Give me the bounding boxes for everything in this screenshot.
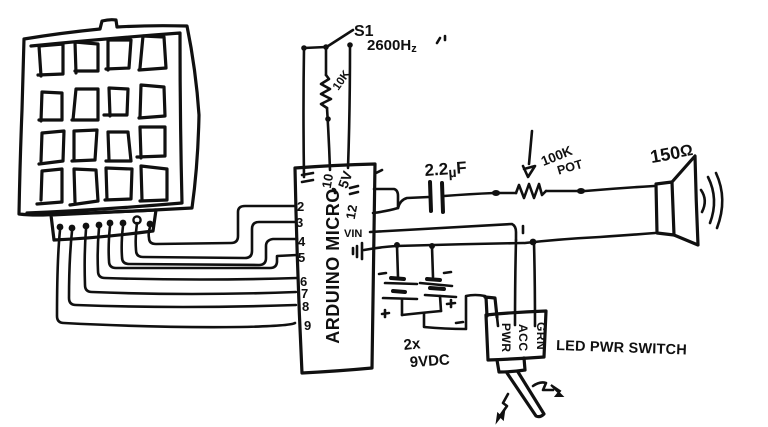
- wire 5V up to switch terminal B: [348, 46, 350, 168]
- wire GRN drop: [534, 243, 535, 326]
- svg-text:2: 2: [297, 199, 304, 214]
- potentiometer R2 100K zigzag: [516, 184, 546, 198]
- LED power switch S2 body: [486, 311, 546, 360]
- wire keypad pin4 to arduino pin6: [98, 228, 297, 280]
- wire keypad pin6 to arduino pin4: [122, 226, 297, 265]
- svg-text:2600Hz: 2600Hz: [367, 37, 417, 55]
- junction node left of pot: [492, 190, 500, 196]
- svg-text:8: 8: [302, 299, 309, 314]
- wire battery B1 bottom: [401, 299, 404, 315]
- node switch terminal A: [323, 44, 329, 50]
- spark arrow left: [497, 394, 508, 421]
- svg-text:9: 9: [304, 318, 311, 333]
- svg-text:ACC: ACC: [516, 324, 530, 352]
- keypad connector header: [51, 210, 156, 240]
- wire keypad pin8 to arduino pin2: [149, 206, 296, 244]
- keypad KP1 body: [19, 20, 199, 215]
- switch S1 lever: [325, 30, 353, 48]
- wire arduino pin11 right to cap node: [374, 189, 398, 207]
- wire arduino pin12 right to cap node: [373, 208, 398, 213]
- ground pin symbol (right): [353, 243, 362, 259]
- svg-text:VIN: VIN: [344, 228, 362, 240]
- battery B2 minus label: [444, 272, 451, 273]
- stray tick above junction: [522, 226, 525, 233]
- wire arduino pin10 up (lower half): [327, 108, 330, 170]
- keypad keys 4x4: [37, 36, 167, 205]
- potentiometer wiper arrow: [523, 131, 535, 177]
- switch lever handle: [507, 372, 544, 417]
- switch terminal stub PWR: [497, 317, 498, 326]
- svg-text:PWR: PWR: [499, 323, 513, 353]
- node switch terminal B: [347, 42, 353, 48]
- wire keypad pin2 to arduino pin8: [69, 231, 296, 307]
- battery B2 plus label: [447, 300, 455, 307]
- wire battery bottoms joined: [402, 311, 441, 315]
- wire ACC drop: [515, 240, 516, 325]
- wire pot to node: [546, 190, 578, 193]
- svg-text:ARDUINO MICRO: ARDUINO MICRO: [323, 188, 343, 344]
- speaker LS1 body: [656, 156, 698, 245]
- stray dash near arduino top-right: [376, 170, 382, 173]
- wire keypad pin5 to arduino pin5: [109, 226, 297, 268]
- battery B1 minus label: [379, 273, 386, 274]
- wire keypad pin3 to arduino pin7: [85, 229, 296, 294]
- switch neck: [497, 358, 525, 372]
- wire rail to speaker -: [525, 233, 655, 243]
- wire node to pot: [500, 192, 516, 195]
- wire rail down to battery B2: [432, 247, 433, 277]
- speaker sound waves: [701, 173, 722, 228]
- battery B2 plates: [420, 279, 456, 297]
- wire node to capacitor: [398, 197, 429, 208]
- battery B1 plates: [383, 278, 417, 299]
- wire ground rail from arduino gnd pin: [364, 243, 524, 250]
- junction on pin10 wire: [325, 116, 331, 122]
- wire resistor to switch node: [325, 47, 328, 75]
- wire battery staircase to switch PWR: [424, 295, 485, 329]
- svg-text:3: 3: [296, 215, 303, 230]
- wire VIN rail to jog: [370, 224, 516, 240]
- pin label 11 (top): [302, 173, 313, 182]
- node at top of pin11 wire: [301, 45, 307, 51]
- svg-text:10: 10: [319, 172, 336, 189]
- junction rails merge: [530, 239, 537, 246]
- junction node right of pot: [577, 188, 585, 194]
- spark arrow right: [533, 382, 562, 396]
- op-amp U1 arduino micro body: [295, 164, 375, 373]
- svg-text:2x: 2x: [403, 335, 422, 354]
- capacitor C1 plates: [430, 182, 443, 212]
- battery B2 tap junction: [429, 243, 435, 249]
- svg-text:4: 4: [298, 234, 306, 249]
- wire node to speaker +: [585, 186, 654, 191]
- wire keypad pin7 to arduino pin3: [136, 222, 296, 258]
- stray minus dash in staircase: [456, 322, 463, 323]
- keypad header pins (8 solder balloons): [57, 216, 154, 231]
- wire arduino pin11 up to switch node: [304, 47, 327, 177]
- svg-text:9VDC: 9VDC: [409, 351, 450, 371]
- svg-text:12: 12: [343, 203, 360, 220]
- stray squiggle between pin 10 and 5V labels: [333, 189, 335, 193]
- wire battery B2 bottom: [440, 296, 441, 311]
- pin label 11 (right): [350, 186, 358, 194]
- wire capacitor to pot: [444, 193, 494, 196]
- wire rail down to battery B1: [397, 246, 398, 277]
- battery B1 plus label: [382, 310, 389, 317]
- LED power switch S2 PWR tab: [485, 297, 497, 317]
- stray tick marks right of 2600Hz: [437, 36, 445, 43]
- svg-text:GRN: GRN: [534, 322, 548, 350]
- battery B1 tap junction: [394, 242, 400, 248]
- svg-text:5: 5: [298, 250, 305, 265]
- resistor R1 10K (in pin10 wire): [321, 75, 331, 108]
- wire keypad pin1 to arduino pin9: [57, 230, 295, 327]
